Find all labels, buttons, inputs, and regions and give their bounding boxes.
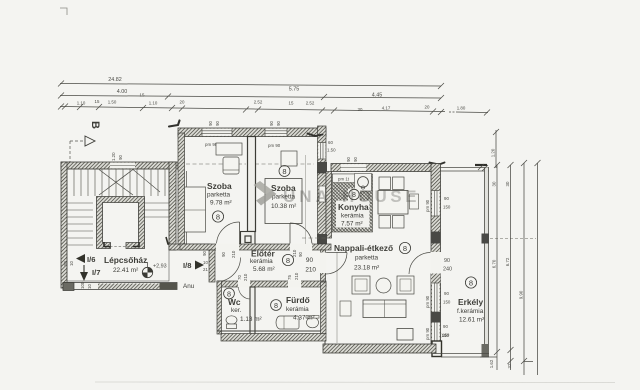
dashed beam line szoba 1 bbox=[186, 163, 246, 165]
svg-text:2.52: 2.52 bbox=[254, 100, 263, 105]
stair flight cross diagonals bbox=[99, 170, 133, 196]
opening in top wall bbox=[341, 164, 366, 171]
svg-text:1.62: 1.62 bbox=[489, 359, 494, 368]
right vertical dim line 1 bbox=[494, 162, 500, 370]
washbasin bbox=[307, 317, 319, 328]
elöter-nappali door leaf and arc bbox=[326, 252, 348, 254]
svg-text:23.18 m²: 23.18 m² bbox=[354, 265, 379, 272]
dashed line from railing pier to dim lines bbox=[490, 238, 536, 240]
svg-text:90: 90 bbox=[444, 291, 449, 296]
svg-text:ker.: ker. bbox=[231, 307, 242, 314]
balcony bottom edge bbox=[433, 353, 489, 355]
circled 8 elöter bbox=[282, 254, 293, 265]
stair treads left flight bbox=[67, 203, 169, 245]
bottom line under balcony bbox=[480, 356, 497, 358]
konyha west wall bbox=[326, 172, 332, 239]
svg-text:30: 30 bbox=[492, 181, 497, 186]
svg-text:100: 100 bbox=[80, 281, 85, 289]
konyha counter strip with sink bbox=[333, 174, 358, 183]
top dimension chain row B 4.00 / 5.75 / 4.45 bbox=[58, 93, 444, 102]
svg-text:150: 150 bbox=[443, 205, 451, 210]
svg-text:30: 30 bbox=[358, 107, 363, 112]
svg-text:90: 90 bbox=[221, 252, 226, 257]
svg-text:4.17: 4.17 bbox=[382, 106, 391, 111]
east window 3 bbox=[432, 323, 440, 343]
svg-text:1.10: 1.10 bbox=[77, 101, 86, 106]
watermark chevron bbox=[254, 181, 277, 206]
svg-text:Erkély: Erkély bbox=[458, 297, 483, 307]
vertical dim 1.20 top right bbox=[493, 129, 499, 168]
corner mark stairwell bottom right bbox=[166, 237, 176, 245]
right vertical dim line 4 bbox=[524, 160, 541, 375]
stairwell outer wall top bbox=[61, 162, 178, 169]
svg-text:90: 90 bbox=[353, 157, 358, 162]
svg-text:90: 90 bbox=[215, 121, 220, 126]
svg-text:20: 20 bbox=[63, 261, 68, 266]
east window 1 bbox=[432, 191, 440, 217]
corridor joint lines right of stairwell bbox=[181, 171, 183, 246]
svg-text:8: 8 bbox=[469, 278, 473, 287]
szoba2 east wall with shaft bbox=[318, 126, 327, 173]
svg-text:pm 90: pm 90 bbox=[268, 143, 281, 148]
svg-text:(150: (150 bbox=[440, 333, 449, 338]
svg-text:pm 90: pm 90 bbox=[425, 199, 430, 212]
konyha floor ceramic hatch bbox=[332, 174, 373, 232]
bathtub bbox=[276, 316, 299, 329]
szoba2 bed bbox=[265, 179, 302, 224]
stairwell top wall door opening with label 1.20/90 bbox=[110, 163, 135, 169]
svg-text:1.20: 1.20 bbox=[111, 152, 116, 161]
dining chairs bbox=[379, 177, 391, 190]
right vertical dim line 2 bbox=[508, 162, 514, 370]
small scan mark top left bbox=[60, 8, 67, 15]
svg-text:I/7: I/7 bbox=[92, 268, 100, 277]
szoba2 door arc bbox=[290, 223, 312, 245]
svg-text:32: 32 bbox=[507, 363, 512, 368]
svg-text:30: 30 bbox=[505, 181, 510, 186]
dark block konyha west bottom bbox=[317, 234, 327, 246]
dining table bbox=[378, 191, 408, 215]
door opening szoba1 bbox=[216, 243, 239, 250]
svg-text:15: 15 bbox=[95, 99, 100, 104]
circled 8 konyha bbox=[348, 189, 360, 201]
svg-text:90: 90 bbox=[444, 196, 449, 201]
svg-text:8: 8 bbox=[274, 301, 278, 310]
svg-text:21: 21 bbox=[203, 267, 208, 272]
konyha labels bbox=[336, 201, 370, 228]
svg-text:210: 210 bbox=[305, 267, 316, 274]
svg-text:15: 15 bbox=[140, 93, 145, 98]
corner block bottom right of building bbox=[432, 341, 442, 357]
east window 2 bbox=[432, 283, 440, 312]
svg-text:1.20: 1.20 bbox=[491, 148, 496, 157]
step wall left of nappali bottom bbox=[318, 334, 325, 344]
svg-text:22.41 m²: 22.41 m² bbox=[113, 267, 138, 274]
elöter west wall bbox=[209, 250, 215, 282]
svg-text:15: 15 bbox=[289, 101, 294, 106]
szoba2 wardrobe bbox=[281, 151, 297, 166]
svg-text:70: 70 bbox=[237, 275, 242, 280]
svg-text:pm 1t: pm 1t bbox=[338, 177, 350, 182]
svg-text:1.50: 1.50 bbox=[108, 100, 117, 105]
dashed beam line szoba 2 bbox=[255, 163, 314, 165]
level marker +2,93 bbox=[142, 262, 166, 278]
door opening szoba2 bbox=[290, 243, 312, 250]
svg-text:Nappali-étkező: Nappali-étkező bbox=[334, 243, 393, 253]
svg-text:4.45: 4.45 bbox=[372, 93, 383, 99]
stair treads upper flight bbox=[67, 169, 165, 196]
svg-text:90: 90 bbox=[269, 121, 274, 126]
svg-text:90: 90 bbox=[276, 121, 281, 126]
svg-text:kerámia: kerámia bbox=[286, 306, 309, 313]
pier below balcony door bbox=[431, 274, 441, 284]
svg-text:Szoba: Szoba bbox=[207, 181, 232, 191]
elevator shaft door dashed bbox=[110, 246, 133, 248]
svg-text:5.68 m²: 5.68 m² bbox=[253, 266, 275, 273]
wc door opening bbox=[238, 280, 250, 287]
svg-text:4.37 m²: 4.37 m² bbox=[293, 315, 315, 322]
entrance door arc into elöter bbox=[217, 258, 241, 282]
tv cabinet bbox=[397, 329, 413, 341]
svg-text:HOUSE: HOUSE bbox=[342, 187, 420, 206]
svg-text:+2,93: +2,93 bbox=[153, 264, 167, 270]
dim labels row C bbox=[77, 99, 466, 112]
balcony door opening bbox=[431, 252, 442, 274]
szoba1 armchair bbox=[223, 157, 239, 174]
fürdö east wall bbox=[321, 282, 327, 334]
armchair right bbox=[397, 276, 414, 294]
svg-text:I/8: I/8 bbox=[183, 261, 191, 270]
svg-text:24.82: 24.82 bbox=[108, 77, 122, 83]
round coffee table bbox=[376, 278, 391, 293]
svg-text:Anu: Anu bbox=[183, 283, 195, 290]
balcony east railing bbox=[485, 168, 489, 358]
svg-text:pm 90: pm 90 bbox=[425, 295, 430, 308]
thick end mark at balcony top corner bbox=[475, 164, 487, 166]
door I/6 arrow bbox=[76, 254, 85, 263]
svg-text:pm 90: pm 90 bbox=[425, 327, 430, 340]
dashed beam konyha/nappali bbox=[302, 237, 331, 239]
corner mark szoba2 top right bbox=[308, 134, 323, 137]
svg-text:90: 90 bbox=[208, 121, 213, 126]
svg-text:8: 8 bbox=[282, 167, 286, 176]
svg-text:6.70: 6.70 bbox=[492, 259, 497, 268]
svg-text:20: 20 bbox=[180, 100, 185, 105]
stair inner landing boundary bbox=[67, 169, 169, 281]
svg-text:UNA: UNA bbox=[283, 187, 332, 206]
wall szoba2 east lower part bbox=[318, 173, 327, 244]
circled 8 wc bbox=[224, 288, 235, 299]
svg-text:10: 10 bbox=[69, 261, 74, 266]
svg-text:2.52: 2.52 bbox=[306, 101, 315, 106]
stairwell outer wall bottom bbox=[63, 283, 177, 290]
dark pier east wall lower bbox=[431, 312, 441, 323]
nappali bottom wall bbox=[323, 344, 436, 353]
svg-text:150: 150 bbox=[443, 300, 451, 305]
svg-text:8: 8 bbox=[403, 244, 407, 253]
section marker B bbox=[70, 121, 101, 162]
svg-text:210: 210 bbox=[292, 249, 297, 257]
circled 8 fürdö bbox=[271, 300, 282, 311]
right vertical dim line 3 bbox=[521, 160, 527, 375]
extra ticks at top of right dim lines bbox=[478, 164, 488, 171]
corner mark building top right bbox=[430, 163, 445, 165]
svg-text:parketta: parketta bbox=[207, 192, 231, 199]
svg-text:9.78 m²: 9.78 m² bbox=[210, 200, 232, 207]
svg-text:210: 210 bbox=[243, 273, 248, 281]
corner mark top left of szoba block bbox=[169, 121, 180, 127]
railing bottom pier bbox=[482, 344, 490, 357]
svg-text:60: 60 bbox=[328, 140, 333, 145]
svg-text:B: B bbox=[89, 121, 101, 129]
top dimension chain row C detail bbox=[58, 104, 490, 116]
svg-text:10: 10 bbox=[87, 284, 92, 289]
konyha/nappali top wall bbox=[331, 164, 440, 172]
svg-text:Előtér: Előtér bbox=[251, 249, 275, 259]
svg-text:Wc: Wc bbox=[228, 297, 241, 307]
wc door small arc bbox=[239, 287, 251, 299]
wall elöter/nappali vertical bbox=[321, 250, 326, 282]
wc/fürdö bottom wall line bbox=[217, 330, 321, 332]
stairwell outer wall right bbox=[169, 162, 176, 250]
svg-text:8: 8 bbox=[286, 256, 290, 265]
circled 8 szoba2 bbox=[279, 166, 290, 177]
dark pier junction szoba2/konyha bbox=[317, 162, 327, 173]
wc west wall bbox=[217, 281, 222, 334]
svg-text:Lépcsőház: Lépcsőház bbox=[104, 255, 147, 265]
window W2 in top wall bbox=[265, 129, 287, 136]
svg-text:I/6: I/6 bbox=[87, 255, 95, 264]
svg-text:210: 210 bbox=[231, 250, 236, 258]
svg-text:8: 8 bbox=[216, 212, 220, 221]
balcony top edge double line bbox=[441, 167, 490, 169]
fürdö door opening bbox=[288, 280, 301, 287]
top dimension chain row A total 24.82 bbox=[58, 81, 444, 90]
faint scanner line bottom bbox=[95, 381, 615, 384]
armchair left bbox=[352, 276, 370, 294]
wc/fürdö divider wall bbox=[250, 287, 255, 334]
svg-text:210: 210 bbox=[294, 272, 299, 280]
dark pier east wall mid bbox=[431, 232, 441, 244]
svg-text:9.90: 9.90 bbox=[519, 290, 524, 299]
flat west wall bbox=[178, 133, 185, 244]
svg-text:f.kerámia: f.kerámia bbox=[457, 308, 484, 315]
svg-text:90: 90 bbox=[202, 251, 207, 256]
svg-text:1.10: 1.10 bbox=[149, 101, 158, 106]
balcony door arc bbox=[409, 253, 431, 275]
svg-text:240: 240 bbox=[443, 267, 452, 273]
svg-text:10: 10 bbox=[203, 260, 208, 265]
wc toilet bbox=[226, 316, 237, 324]
svg-text:Fürdő: Fürdő bbox=[286, 295, 310, 305]
bottom hatched band under wc/fürdö bbox=[221, 334, 326, 342]
entry wall hatched between stairs and flat bbox=[169, 244, 210, 250]
east exterior wall bbox=[431, 164, 441, 353]
svg-text:parketta: parketta bbox=[355, 255, 379, 262]
divider wall szoba1/szoba2 bbox=[248, 137, 256, 232]
circled 8 erkely bbox=[465, 277, 476, 288]
door opening elöter-nappali bbox=[320, 253, 327, 274]
szoba1 door arc bbox=[215, 280, 217, 282]
szoba1 desk under window bbox=[216, 143, 242, 155]
svg-text:90: 90 bbox=[118, 155, 123, 160]
svg-text:90: 90 bbox=[444, 258, 450, 264]
svg-text:6.72: 6.72 bbox=[505, 257, 510, 266]
railing pier dark bbox=[482, 234, 490, 244]
shaft gap in wall bbox=[319, 186, 326, 202]
szoba1 wardrobe bbox=[185, 187, 206, 232]
svg-text:1.13 m²: 1.13 m² bbox=[240, 316, 262, 323]
svg-text:90: 90 bbox=[298, 252, 303, 257]
svg-text:kerámia: kerámia bbox=[341, 213, 364, 220]
svg-text:12.61 m²: 12.61 m² bbox=[459, 317, 484, 324]
svg-text:4.00: 4.00 bbox=[117, 89, 128, 95]
chimney block with flue bbox=[241, 232, 256, 247]
svg-text:90: 90 bbox=[346, 157, 351, 162]
svg-text:90: 90 bbox=[306, 257, 314, 264]
svg-text:90: 90 bbox=[443, 324, 448, 329]
wc/fürdö top wall bbox=[217, 281, 326, 287]
window W1 in top wall bbox=[202, 129, 232, 136]
nappali inner face line bbox=[336, 252, 338, 343]
east window of szoba2 bbox=[318, 143, 325, 160]
circled 8 nappali bbox=[399, 242, 410, 253]
svg-text:7.57 m²: 7.57 m² bbox=[341, 221, 363, 228]
side table left of sofa bbox=[340, 301, 351, 316]
svg-text:1.80: 1.80 bbox=[457, 106, 466, 111]
svg-text:20: 20 bbox=[425, 105, 430, 110]
wall rooms/elöter horizontal bbox=[180, 244, 331, 250]
szoba block top wall bbox=[178, 128, 326, 137]
svg-text:5.75: 5.75 bbox=[289, 87, 300, 93]
stairwell outer wall left bbox=[61, 162, 67, 288]
circled 8 szoba1 bbox=[212, 211, 223, 222]
extension line left of konyha bbox=[305, 155, 307, 244]
svg-text:kerámia: kerámia bbox=[250, 258, 273, 265]
svg-text:75: 75 bbox=[287, 275, 292, 280]
elevator shaft walls bbox=[97, 197, 145, 249]
svg-text:1.50: 1.50 bbox=[327, 148, 336, 153]
sofa bbox=[363, 300, 406, 318]
